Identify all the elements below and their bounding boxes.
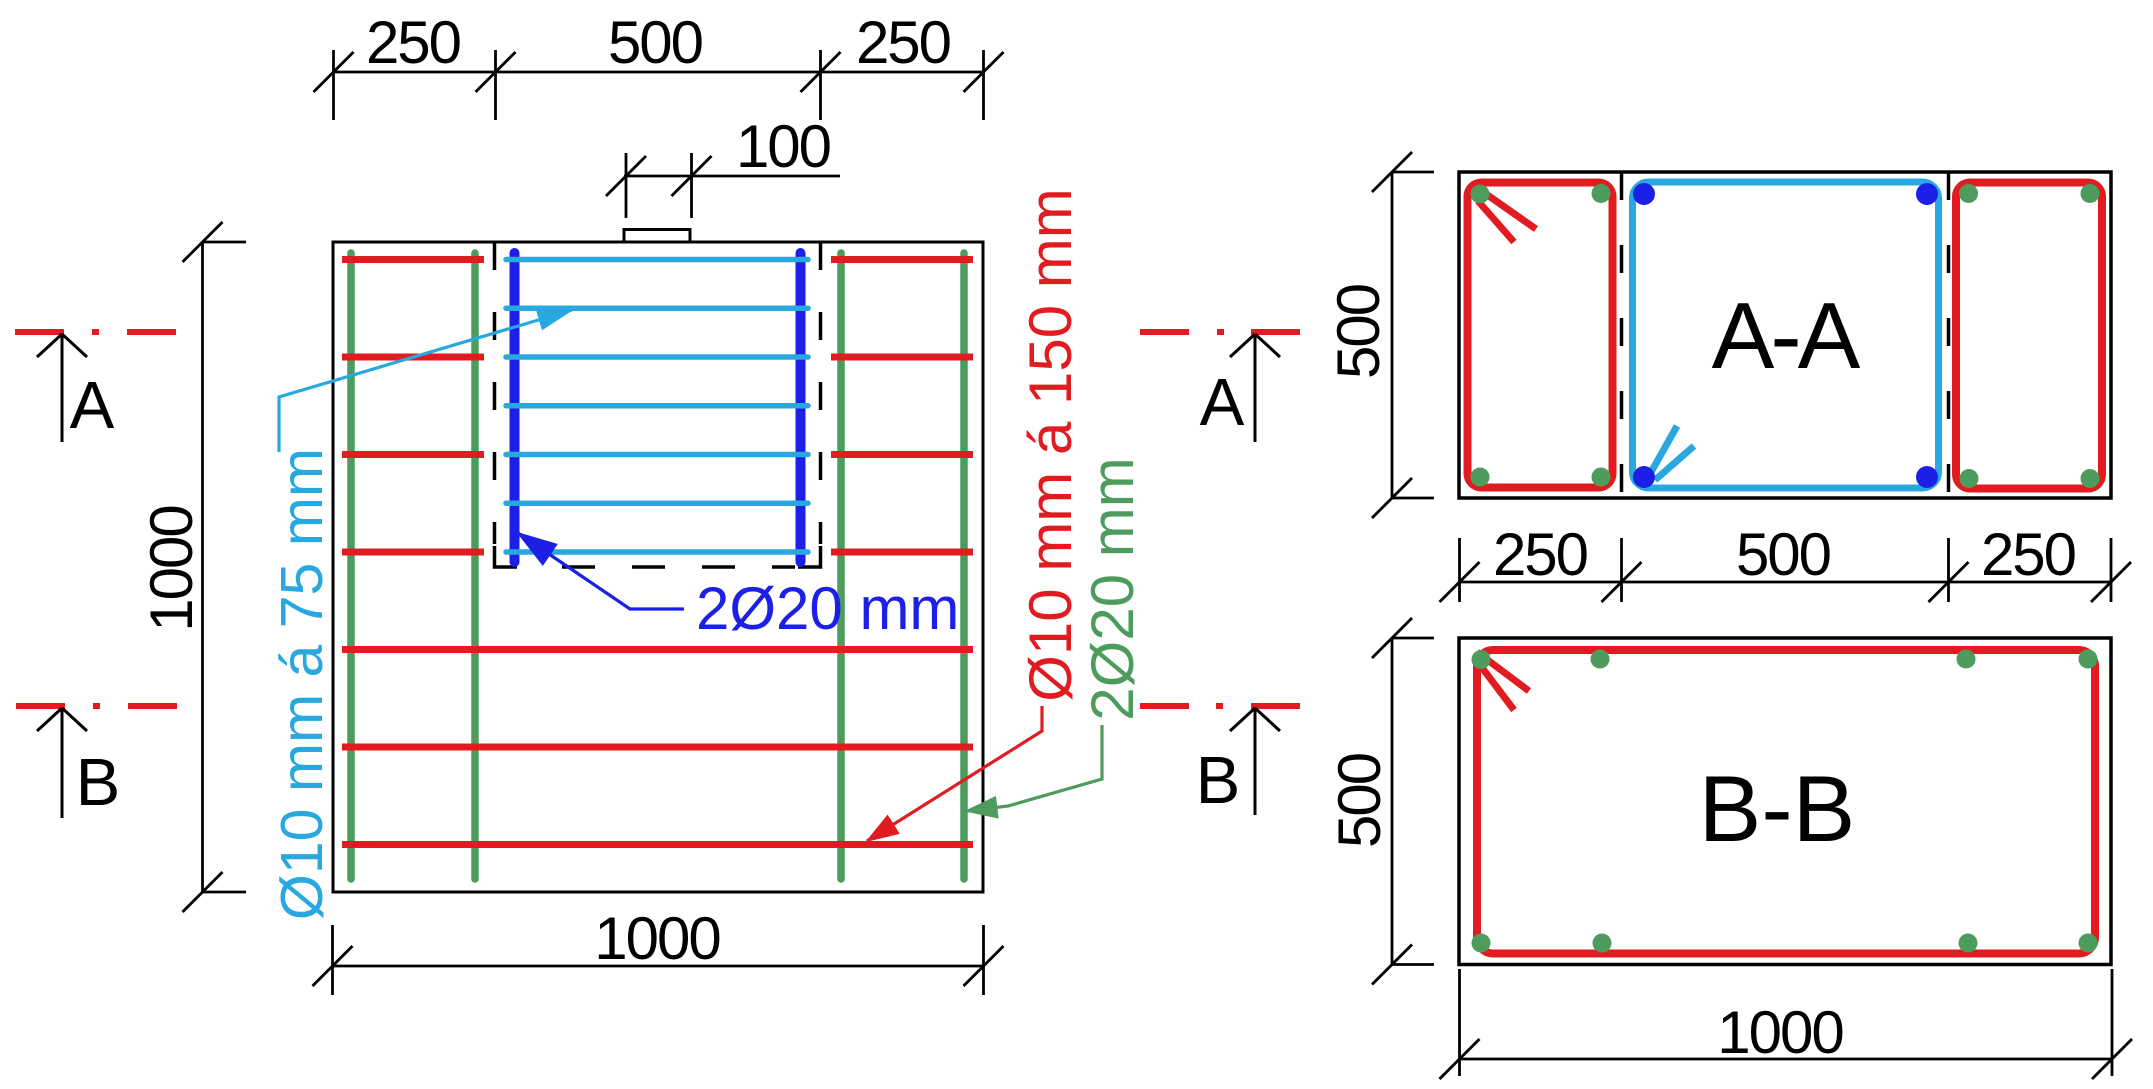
A-A left red stirrup [1468, 183, 1613, 488]
A-A right green dots [1959, 184, 2100, 488]
plan top dimension line [314, 50, 1004, 120]
svg-text:Ø10 mm á 150 mm: Ø10 mm á 150 mm [1017, 188, 1084, 702]
cyan leader line [279, 310, 572, 452]
svg-text:250: 250 [1981, 521, 2076, 588]
cyan tie row 6 [506, 500, 808, 506]
plan top stub plate [624, 230, 690, 243]
section B-B outline [1459, 638, 2111, 965]
blue column bar left [510, 253, 520, 562]
green longitudinal bar 2 [471, 253, 479, 879]
A-A left green dots [1471, 184, 1611, 487]
svg-text:250: 250 [856, 9, 951, 76]
cyan tie row 7 [506, 549, 808, 555]
section cut line B right [1140, 703, 1300, 709]
green longitudinal bar 1 [347, 253, 355, 879]
A-A cyan hook [1650, 426, 1694, 480]
blue leader line [518, 533, 684, 609]
stub dimension line 100 [606, 153, 840, 218]
cyan tie row 3 [506, 354, 808, 360]
red leader line [867, 706, 1042, 841]
cyan tie row 4 [506, 403, 808, 409]
svg-text:B: B [1196, 743, 1241, 818]
plan left dimension line 1000 [183, 222, 247, 912]
B-B green dots [1472, 650, 2098, 953]
svg-text:2Ø20 mm: 2Ø20 mm [1079, 457, 1146, 720]
cyan tie row 5 [506, 452, 808, 458]
red stirrup row 2 right [831, 354, 973, 361]
red stirrup row 4 right [831, 549, 973, 556]
svg-text:A: A [70, 368, 115, 443]
red stirrup row 1 right [831, 256, 973, 263]
red stirrup row 7 full [342, 841, 973, 848]
green longitudinal bar 3 [837, 253, 845, 879]
section cut line B left [16, 703, 177, 709]
svg-text:A-A: A-A [1712, 283, 1861, 388]
A-A middle cyan stirrup [1633, 182, 1939, 488]
B-B bottom dimension line [1440, 969, 2133, 1079]
svg-text:500: 500 [608, 9, 703, 76]
svg-text:500: 500 [1326, 753, 1393, 848]
section A-A outline [1459, 172, 2111, 498]
A-A blue dots [1633, 183, 1938, 488]
red stirrup row 3 right [831, 451, 973, 458]
A-A bottom dimension line [1440, 538, 2132, 602]
dashed column outline right corner [798, 546, 821, 567]
svg-text:250: 250 [366, 9, 461, 76]
dashed column outline left [493, 242, 497, 544]
dashed column outline right [819, 242, 823, 544]
section arrow A right [1230, 334, 1280, 442]
dashed column outline bottom [562, 565, 795, 569]
red stirrup row 5 full [342, 646, 973, 653]
svg-text:1000: 1000 [138, 506, 205, 632]
svg-text:B: B [76, 745, 121, 820]
red stirrup row 1 left [342, 256, 484, 263]
B-B red stirrup [1477, 650, 2095, 954]
svg-text:500: 500 [1325, 284, 1392, 379]
svg-text:250: 250 [1493, 521, 1588, 588]
section A-A divider left [1620, 172, 1624, 498]
svg-text:B-B: B-B [1699, 756, 1856, 861]
red stirrup row 3 left [342, 451, 484, 458]
svg-text:500: 500 [1736, 521, 1831, 588]
red stirrup row 6 full [342, 744, 973, 751]
svg-text:1000: 1000 [1717, 999, 1843, 1066]
section cut line A right [1140, 329, 1300, 335]
section arrow B left [37, 708, 87, 818]
A-A red hook [1476, 187, 1536, 242]
B-B red hook [1477, 652, 1529, 710]
B-B left dimension 500 [1372, 618, 1434, 985]
plan bottom dimension line 1000 [313, 925, 1004, 995]
blue column bar right [796, 253, 806, 562]
svg-text:Ø10 mm á 75 mm: Ø10 mm á 75 mm [269, 448, 335, 920]
svg-text:2Ø20 mm: 2Ø20 mm [696, 575, 959, 642]
green longitudinal bar 4 [960, 253, 968, 879]
dashed column outline left corner [495, 546, 518, 567]
section A-A divider right [1947, 172, 1951, 498]
red stirrup row 4 left [342, 549, 484, 556]
svg-text:1000: 1000 [594, 905, 720, 972]
green leader line [966, 725, 1102, 811]
section arrow B right [1230, 708, 1280, 815]
svg-text:100: 100 [736, 113, 831, 180]
cyan tie row 2 [506, 305, 808, 311]
plan view concrete outline [333, 242, 983, 892]
A-A left dimension 500 [1372, 152, 1434, 518]
cyan tie row 1 [506, 257, 808, 263]
svg-text:A: A [1200, 365, 1245, 440]
section cut line A left [15, 329, 176, 335]
red stirrup row 2 left [342, 354, 484, 361]
A-A right red stirrup [1956, 183, 2102, 489]
section arrow A left [37, 334, 87, 442]
